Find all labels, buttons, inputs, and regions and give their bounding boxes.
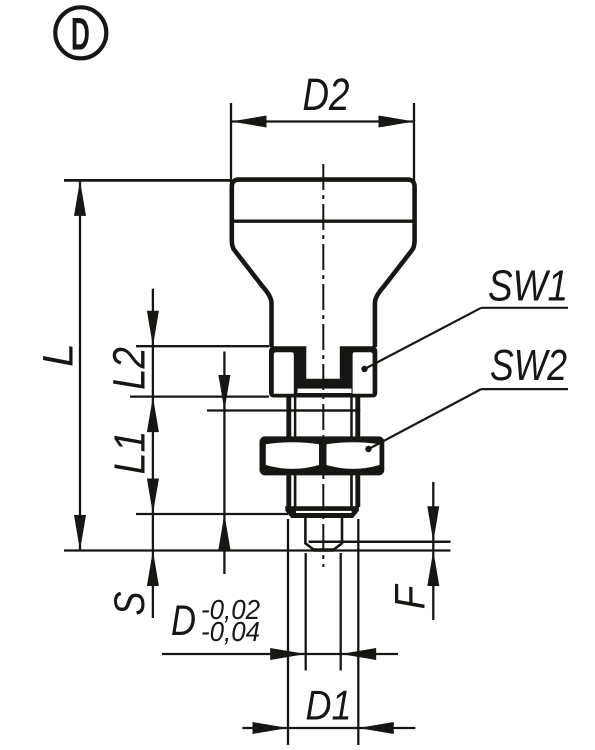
svg-text:L: L [35,343,83,367]
svg-text:D: D [171,597,196,645]
svg-text:D2: D2 [303,69,350,120]
svg-text:SW1: SW1 [488,263,568,311]
svg-text:D: D [71,9,90,60]
svg-text:D1: D1 [306,682,352,729]
svg-text:F: F [386,583,434,609]
svg-text:S: S [106,591,154,615]
svg-text:-0,04: -0,04 [201,616,260,647]
svg-text:SW2: SW2 [490,342,567,390]
svg-text:L2: L2 [104,347,155,390]
svg-text:L1: L1 [106,431,155,475]
